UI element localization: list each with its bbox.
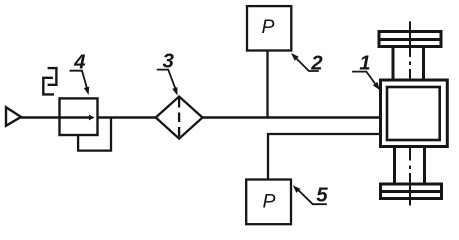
filter F3 diamond body <box>156 97 203 139</box>
wire: supply line from triangle through regulator body <box>21 116 90 118</box>
chamber 1: inner square <box>387 87 440 140</box>
wire: main line from filter 3 to chamber 1 <box>203 116 382 118</box>
svg-text:3: 3 <box>162 49 174 72</box>
svg-text:5: 5 <box>316 184 328 207</box>
pressure gauge P2 box <box>247 6 291 50</box>
svg-text:P: P <box>261 16 274 38</box>
spring symbol of regulator 4 <box>43 68 56 94</box>
regulator R4 body box <box>60 98 98 135</box>
svg-text:1: 1 <box>359 52 370 75</box>
chamber 1: vertical dash-dot centerline <box>409 21 411 205</box>
wire: pilot feedback loop under regulator 4 <box>78 118 111 151</box>
filter element dashed line <box>178 98 180 138</box>
wire: drop from gauge P2 to main line <box>266 51 268 118</box>
chamber 1: top flange <box>379 32 441 47</box>
label 2 leader arrow <box>291 53 319 71</box>
svg-text:4: 4 <box>73 51 86 74</box>
chamber 1: top shaft lines <box>393 47 424 81</box>
supply source triangle <box>6 107 21 126</box>
svg-text:2: 2 <box>310 52 323 75</box>
chamber 1: bottom shaft lines <box>395 147 425 185</box>
label 3 leader arrow <box>157 70 178 96</box>
label 1 leader arrow <box>352 72 380 91</box>
chamber 1: bottom flange <box>381 184 442 199</box>
label 5 leader arrow <box>293 185 327 204</box>
pressure gauge P5 box <box>246 180 291 225</box>
svg-text:P: P <box>262 190 275 212</box>
wire: line from regulator 4 to filter 3 <box>98 116 157 118</box>
flow arrowhead inside regulator 4 <box>89 115 95 121</box>
label 4 leader arrow <box>70 71 90 95</box>
chamber 1: outer square <box>381 80 448 147</box>
wire: lower branch from gauge P5 to chamber 1 <box>268 134 381 180</box>
